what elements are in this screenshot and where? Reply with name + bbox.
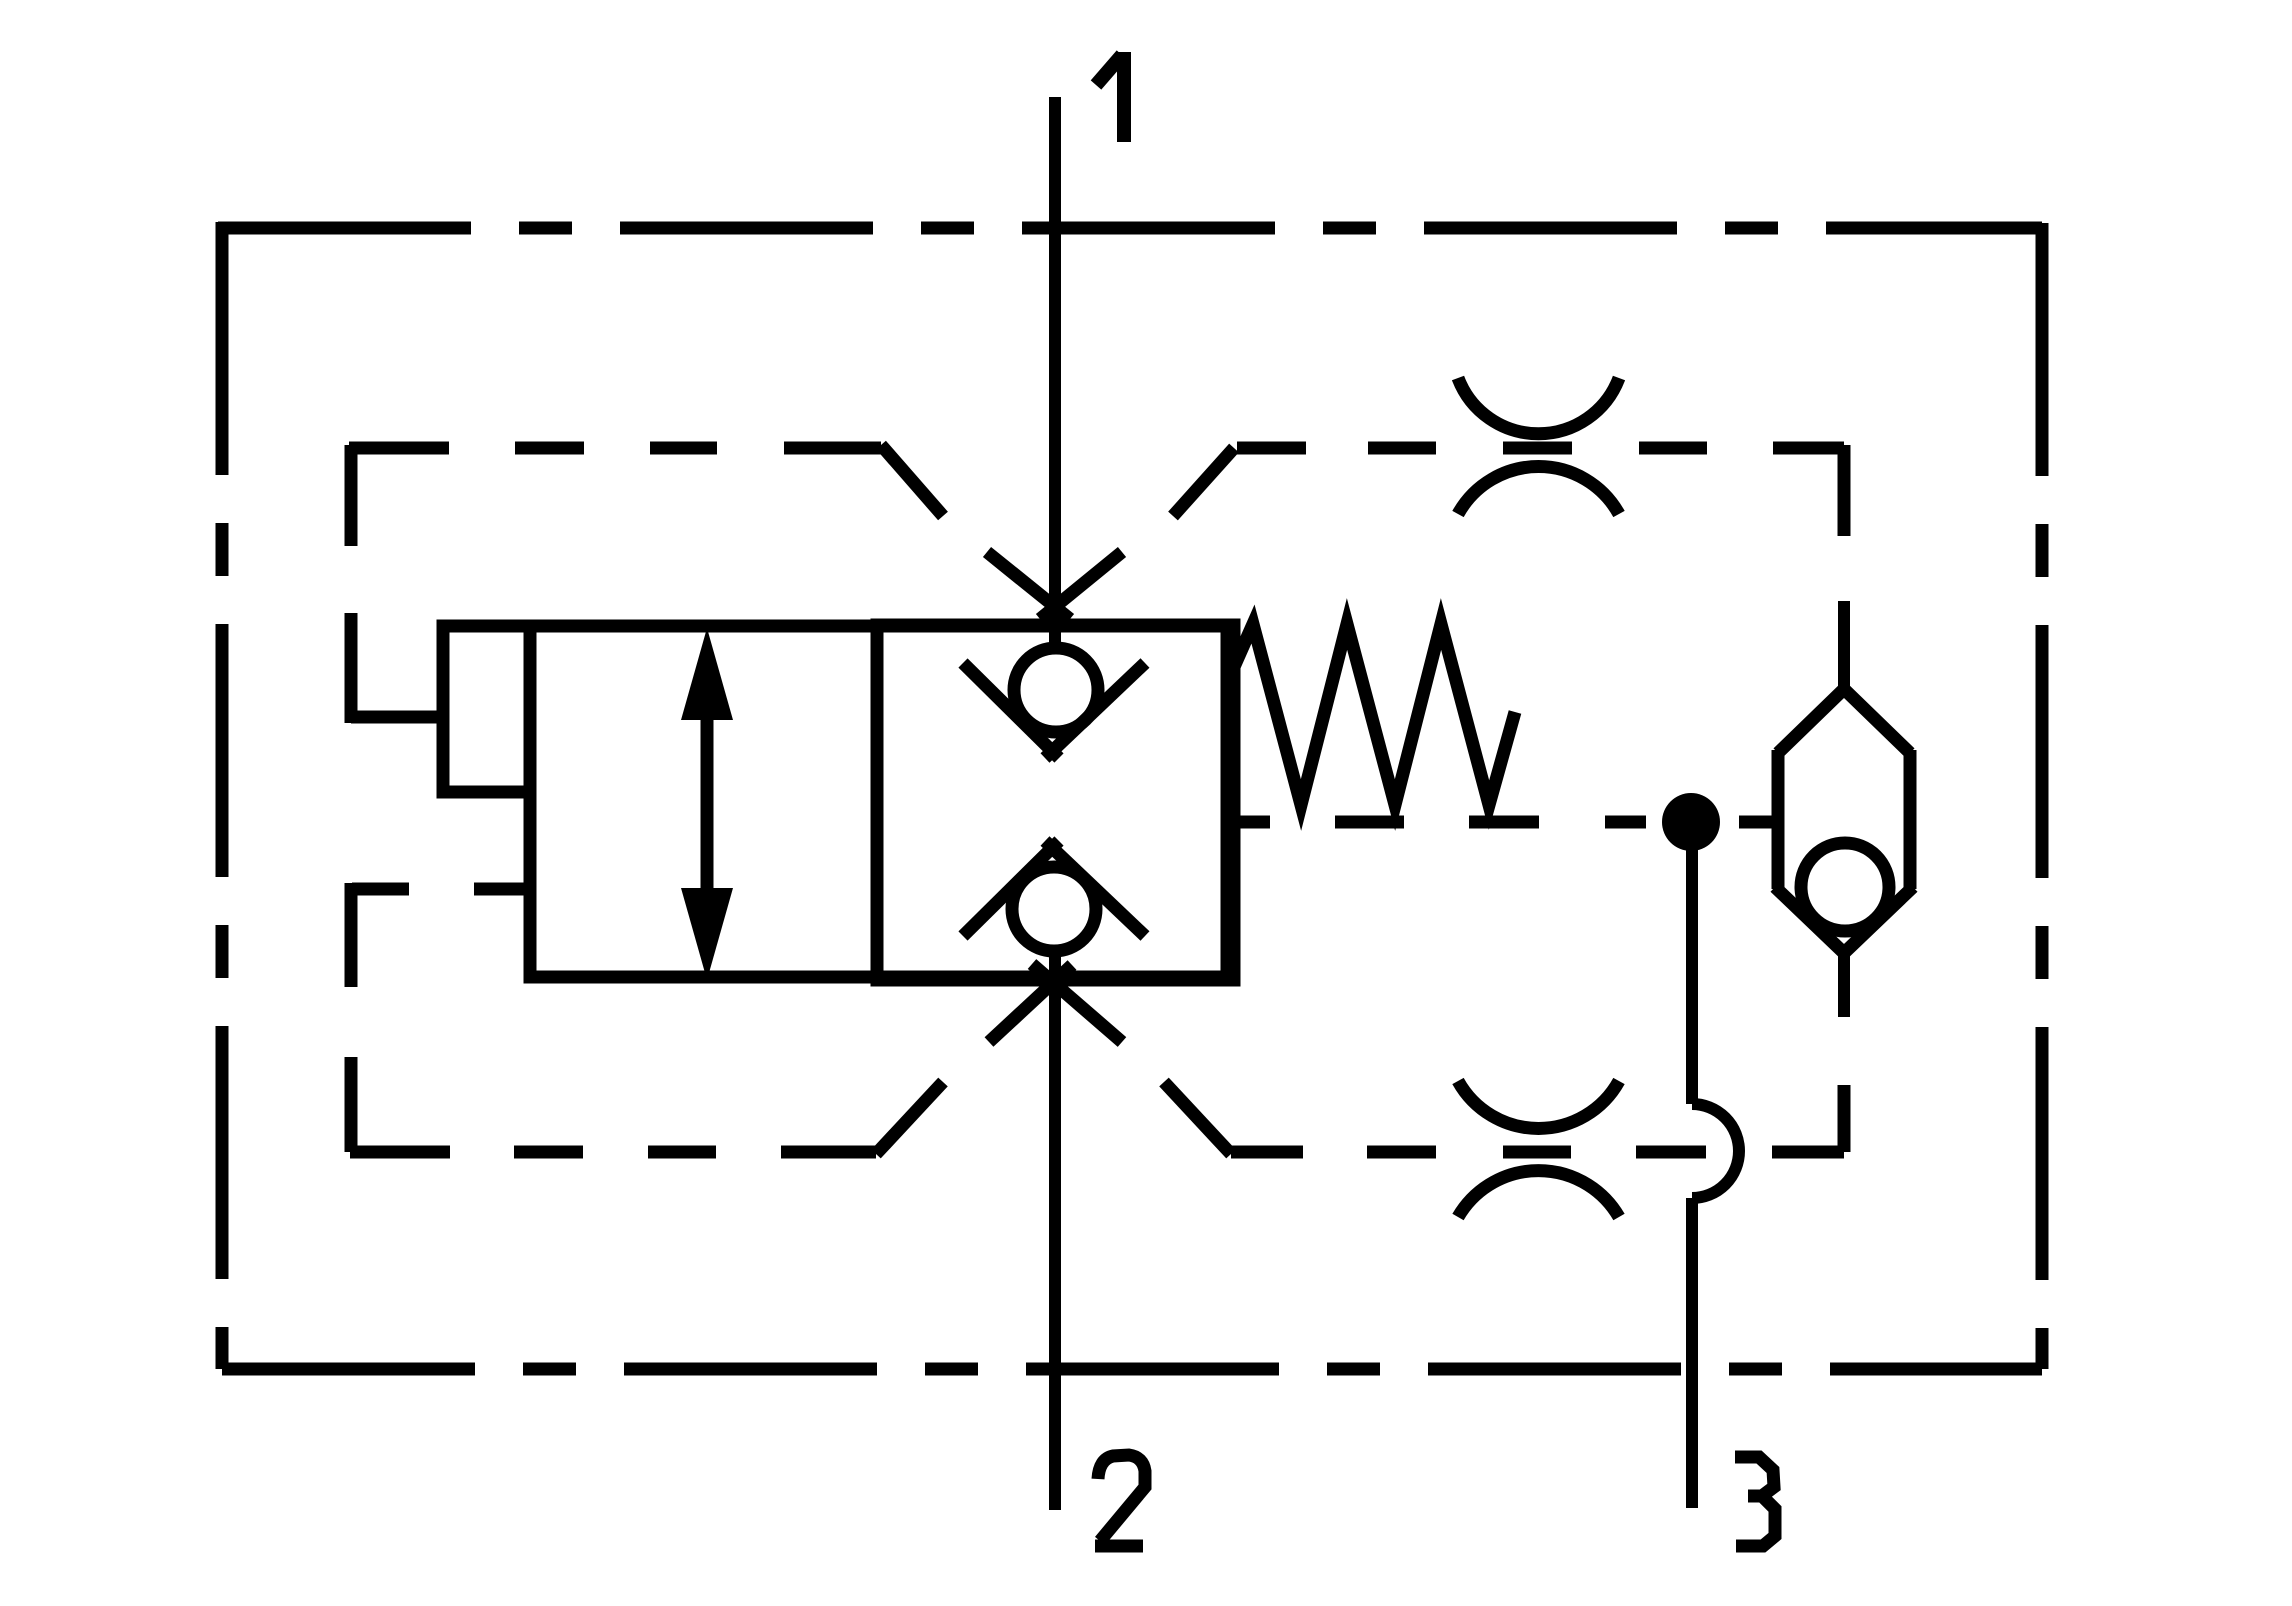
valve right position box	[877, 625, 1234, 980]
inner pilot boundary top edge (dashed)	[349, 445, 1844, 516]
check ball upper	[1014, 648, 1098, 732]
check ball lower	[1012, 867, 1096, 951]
inner pilot boundary bottom edge (dashed)	[350, 1082, 1844, 1154]
inner pilot boundary left edge (dashed)	[345, 445, 358, 1152]
flow arrow at valve port 1	[987, 552, 1122, 619]
port 3 label "3"	[1735, 1457, 1775, 1546]
port 2 line	[1049, 956, 1061, 1510]
pilot check valve ball	[1801, 843, 1889, 931]
check seat upper (V)	[963, 663, 1145, 758]
pilot check valve body (hexagon)	[1775, 689, 1913, 953]
inner pilot boundary right edge upper dash	[1838, 445, 1851, 536]
enclosure boundary top (dash-dot)	[218, 222, 2042, 235]
spring	[1234, 624, 1515, 805]
enclosure boundary right (dash-dot)	[2036, 223, 2049, 1369]
pilot connector to valve (dashed)	[352, 883, 530, 896]
valve actuator double-headed arrow	[681, 628, 733, 980]
pilot check valve upper stub	[1838, 601, 1850, 690]
pilot line from valve to node (dashed)	[1233, 816, 1646, 829]
port 1 label "1"	[1096, 52, 1124, 142]
port 3 line upper segment	[1686, 849, 1698, 1104]
port 2 label "2"	[1095, 1455, 1145, 1546]
node to pilot check valve connector	[1739, 816, 1778, 829]
pilot check valve lower stub	[1838, 953, 1850, 1017]
junction node	[1662, 793, 1720, 851]
orifice bottom (restriction)	[1458, 1081, 1619, 1217]
pilot connector to tab (solid)	[351, 711, 443, 724]
enclosure boundary left (dash-dot)	[216, 222, 229, 1369]
check seat lower (inverted V)	[963, 841, 1145, 936]
enclosure boundary bottom (dash-dot)	[222, 1363, 2042, 1376]
flow arrow at valve port 2	[989, 964, 1122, 1042]
port 3 line lower segment	[1686, 1198, 1698, 1508]
port 1 line	[1049, 97, 1061, 648]
pilot check valve lower dash	[1838, 1085, 1851, 1152]
orifice top (restriction)	[1458, 378, 1619, 514]
valve pilot tab	[443, 626, 530, 792]
port 3 hop over pilot line	[1692, 1104, 1739, 1198]
main valve body outline	[530, 626, 1227, 977]
